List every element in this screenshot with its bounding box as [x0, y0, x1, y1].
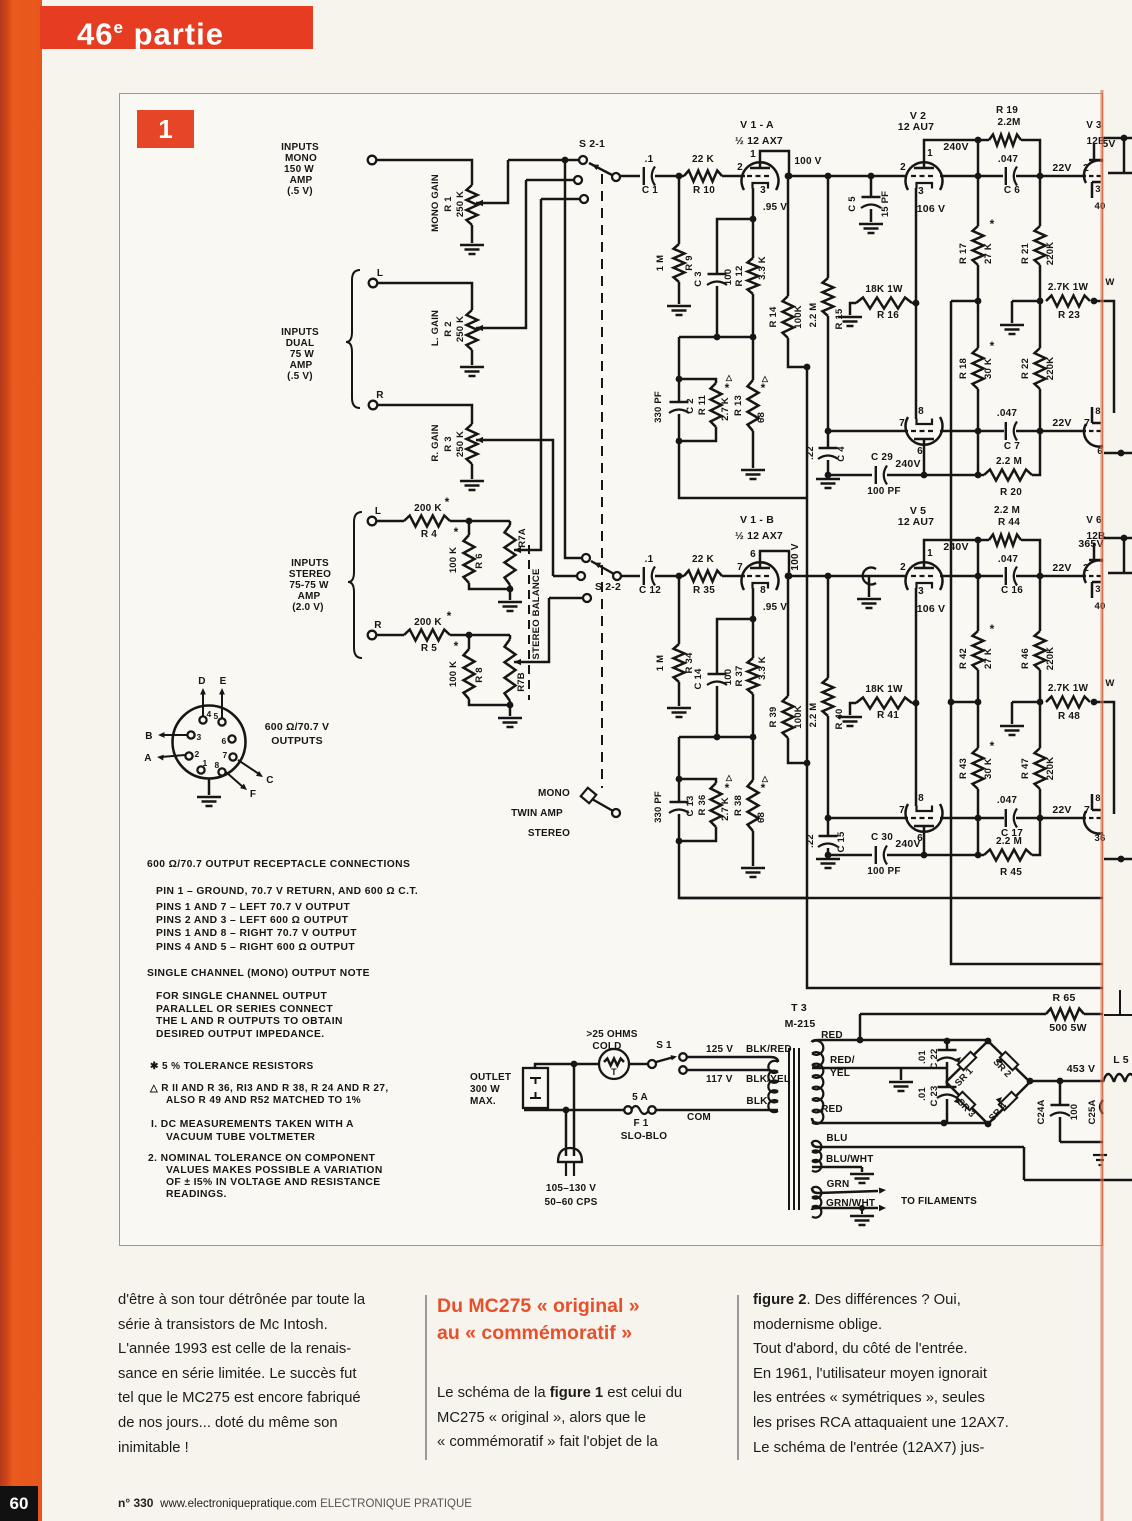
resistor R 44 2.2M: [989, 535, 1021, 546]
wire node to C 2 column: [678, 337, 681, 379]
node R17/R18: [975, 699, 982, 706]
wire V 1 - B plate jog: [760, 551, 789, 576]
svg-text:*: *: [447, 609, 452, 623]
node plate rail V 5: [975, 537, 982, 544]
wire B+ rail x951: [951, 301, 1103, 964]
transformer T3 HV secondary: [812, 1041, 823, 1124]
svg-text:3: 3: [918, 586, 924, 597]
svg-text:OF ± I5% IN VOLTAGE AND RE: OF ± I5% IN VOLTAGE AND RESISTANCE: [166, 1177, 381, 1188]
switch S2-2 arm: [591, 561, 614, 574]
svg-text:BLU: BLU: [826, 1133, 847, 1144]
resistor R 42 27K: [973, 631, 984, 670]
rectifier bridge SR2: [988, 1041, 1030, 1082]
svg-text:.95 V: .95 V: [763, 202, 787, 213]
wire GRN/WHT tap arrow: [812, 1208, 878, 1210]
wire R23 to next page: [1094, 301, 1114, 413]
resistor R8 100K: [464, 649, 475, 699]
switch S2-2 throw2: [577, 572, 585, 580]
resistor R 10 22K: [684, 171, 722, 182]
wire R8 stem: [468, 635, 471, 649]
node R 37 bottom: [750, 734, 757, 741]
capacitor C 14 100pF: [708, 673, 727, 675]
svg-text:C: C: [266, 775, 273, 786]
svg-text:S 2-2: S 2-2: [595, 581, 621, 593]
switch S1 contact 125V: [679, 1053, 687, 1061]
svg-text:117 V: 117 V: [706, 1074, 733, 1085]
pot R1 wiper: [476, 200, 483, 206]
wire RED/YEL centre tap: [812, 1068, 901, 1080]
node C7 right: [1037, 428, 1044, 435]
svg-text:DESIRED OUTPUT IMPEDANCE.: DESIRED OUTPUT IMPEDANCE.: [156, 1029, 324, 1040]
svg-text:*: *: [454, 525, 459, 539]
svg-text:7: 7: [737, 562, 743, 573]
ground below C 15: [816, 859, 840, 868]
capacitor C 7 .047: [1005, 422, 1007, 440]
wire C 16 to V3 grid: [1016, 575, 1086, 578]
svg-text:PINS 2 AND 3 – LEFT 600 Ω O: PINS 2 AND 3 – LEFT 600 Ω OUTPUT: [156, 915, 349, 926]
svg-text:W: W: [1105, 678, 1114, 689]
svg-text:.047: .047: [997, 408, 1018, 419]
capacitor C 29 100PF: [875, 466, 877, 484]
svg-text:.95 V: .95 V: [763, 602, 787, 613]
svg-text:100 PF: 100 PF: [867, 866, 900, 877]
svg-text:125 V: 125 V: [706, 1044, 733, 1055]
wire pin7 row: [828, 817, 908, 820]
svg-text:THE L AND R OUTPUTS TO OBT: THE L AND R OUTPUTS TO OBTAIN: [156, 1016, 343, 1027]
node C22 top: [944, 1038, 951, 1045]
svg-text:.01: .01: [917, 1087, 928, 1101]
terminal L stereo input: [368, 517, 377, 526]
wire R stereo to R5: [376, 634, 404, 637]
wire thermistor to S1: [629, 1063, 648, 1066]
wire pin6 row left: [828, 474, 872, 477]
svg-text:8: 8: [918, 406, 924, 417]
svg-text:*: *: [990, 622, 995, 636]
capacitor C 13 330PF: [678, 779, 681, 803]
svg-text:C 6: C 6: [1004, 185, 1020, 196]
svg-text:240V: 240V: [895, 458, 920, 470]
svg-text:C 5: C 5: [847, 196, 858, 212]
wire cathode to C 3: [717, 219, 753, 275]
svg-text:INPUTS: INPUTS: [281, 142, 319, 153]
svg-text:R 5: R 5: [421, 643, 437, 654]
svg-text:8: 8: [918, 793, 924, 804]
svg-text:FOR SINGLE CHANNEL OUTPUT: FOR SINGLE CHANNEL OUTPUT: [156, 991, 327, 1002]
svg-text:STEREO: STEREO: [289, 569, 331, 580]
resistor R 47 220K: [1039, 702, 1042, 748]
svg-text:330 PF: 330 PF: [653, 791, 664, 823]
svg-text:2.7 K: 2.7 K: [720, 797, 731, 821]
wire R2 to ground: [471, 350, 474, 365]
transformer T3 BLU winding: [812, 1141, 821, 1172]
capacitor C 15 .22: [825, 815, 832, 822]
svg-text:2.2 M: 2.2 M: [808, 703, 819, 728]
svg-text:68: 68: [756, 812, 767, 823]
svg-text:R 16: R 16: [877, 310, 899, 321]
node C 13 bottom: [676, 838, 683, 845]
node R 41 junction: [913, 700, 920, 707]
wire C 17 to V3 pin7: [1016, 817, 1086, 820]
svg-text:75 W: 75 W: [290, 349, 315, 360]
wire right edge stub top: [1103, 137, 1132, 140]
svg-text:330 PF: 330 PF: [653, 391, 664, 423]
svg-text:R 34: R 34: [684, 652, 695, 673]
wire R6 stem: [468, 521, 471, 535]
svg-text:L: L: [377, 268, 383, 279]
svg-text:7: 7: [899, 805, 905, 816]
svg-text:22V: 22V: [1052, 417, 1071, 429]
svg-text:R 22: R 22: [1020, 358, 1031, 379]
ground below receptacle: [197, 797, 221, 806]
wire bus mono to S2-2: [565, 160, 581, 558]
svg-text:22 K: 22 K: [692, 554, 715, 565]
triode V 2 phase inverter upper: [906, 162, 943, 190]
node B+ rail channel B: [948, 699, 955, 706]
svg-text:106 V: 106 V: [917, 603, 945, 615]
svg-text:E: E: [220, 676, 227, 687]
svg-text:R 3: R 3: [443, 436, 454, 451]
wire fuse to primary bottom: [656, 1109, 778, 1112]
triode V 1 - B first stage: [741, 562, 778, 590]
wire C 6 to V3 grid: [1016, 175, 1086, 178]
node plate junction: [786, 573, 793, 580]
node grid rail: [975, 173, 982, 180]
node C7 left: [975, 428, 982, 435]
wire R 35 to tube grid: [722, 575, 745, 578]
ground below R 9: [667, 306, 691, 315]
svg-text:7: 7: [223, 750, 228, 760]
connector 600ohm/70.7V output receptacle: [173, 706, 246, 779]
wire feedback rail x807: [807, 367, 1103, 988]
svg-text:(.5 V): (.5 V): [287, 371, 313, 382]
wire V 5 grid out: [940, 575, 1003, 578]
svg-text:22V: 22V: [1052, 804, 1071, 816]
resistor R 15 2.2M: [825, 173, 832, 180]
ground below R7A: [498, 602, 522, 611]
wire cathode to C 14: [717, 619, 753, 675]
capacitor C22 .01: [946, 1041, 949, 1051]
terminal R stereo input: [368, 631, 377, 640]
resistor R 11 2.7K: [711, 383, 722, 427]
terminal R input: [369, 401, 378, 410]
svg-text:R 38: R 38: [733, 795, 744, 816]
pin D arrow: [202, 692, 204, 716]
svg-text:R 35: R 35: [693, 585, 715, 596]
svg-text:M-215: M-215: [785, 1018, 816, 1030]
potentiometer R7A: [509, 521, 512, 525]
wire R 10 to tube grid: [722, 175, 745, 178]
potentiometer R7B: [509, 635, 512, 639]
svg-text:8: 8: [760, 585, 766, 596]
pin A arrow: [161, 755, 185, 757]
node grid junction R 35: [676, 573, 683, 580]
svg-text:220K: 220K: [1045, 357, 1056, 381]
node R21 top: [1037, 573, 1044, 580]
wire R23 ground branch: [1012, 301, 1040, 323]
svg-text:250 K: 250 K: [455, 316, 466, 342]
svg-text:R 6: R 6: [474, 553, 485, 568]
resistor R 18 30K: [977, 301, 980, 348]
switch S1 pole: [648, 1060, 656, 1068]
svg-text:*: *: [761, 381, 766, 395]
svg-text:L 5: L 5: [1113, 1054, 1129, 1066]
svg-text:2: 2: [737, 162, 743, 173]
ground below R1: [460, 245, 484, 254]
svg-text:100K: 100K: [793, 705, 804, 729]
wire receptacle ground: [208, 779, 211, 796]
ground below R2: [460, 367, 484, 376]
wire R6/R7A bottom node: [469, 583, 510, 600]
node grid junction R 10: [676, 173, 683, 180]
capacitor C 6 .047: [1005, 167, 1007, 185]
switch S2-1 throw2: [574, 176, 582, 184]
svg-text:R 42: R 42: [958, 648, 969, 669]
svg-text:C 17: C 17: [1001, 828, 1023, 839]
svg-text:100K: 100K: [793, 305, 804, 329]
svg-text:1 M: 1 M: [655, 655, 666, 671]
svg-text:S 2-1: S 2-1: [579, 138, 605, 150]
pin F arrow: [226, 772, 243, 787]
svg-text:.01: .01: [917, 1050, 928, 1064]
svg-text:*: *: [990, 217, 995, 231]
resistor R 22 220K: [1039, 301, 1042, 348]
ground below R3: [460, 481, 484, 490]
svg-text:2.2 M: 2.2 M: [994, 505, 1020, 516]
resistor R 12 3.3K: [752, 219, 755, 258]
svg-text:100 V: 100 V: [794, 156, 821, 167]
pin B arrow: [162, 734, 187, 736]
ground R23 branch: [1000, 726, 1024, 735]
svg-text:3.3 K: 3.3 K: [757, 256, 768, 280]
svg-text:R 11: R 11: [697, 394, 708, 415]
svg-text:6: 6: [917, 446, 923, 457]
node R21/R22/R23: [1037, 699, 1044, 706]
svg-text:*: *: [454, 639, 459, 653]
svg-text:R 14: R 14: [768, 306, 779, 327]
rectifier bridge SR3: [946, 1082, 988, 1124]
svg-text:R 48: R 48: [1058, 711, 1080, 722]
node C23 bottom tap: [941, 1120, 948, 1127]
potentiometer R3 250K: [467, 424, 478, 464]
svg-text:R 15: R 15: [834, 308, 845, 329]
wire C24A bottom: [1060, 1141, 1103, 1144]
wire RED top tap: [812, 1014, 860, 1042]
node C7 left: [975, 815, 982, 822]
resistor R 37 3.3K: [752, 619, 755, 658]
wire cathode stem: [752, 588, 755, 619]
svg-text:SLO-BLO: SLO-BLO: [621, 1131, 667, 1142]
svg-text:△: △: [761, 374, 769, 383]
capacitor C 30 100PF: [875, 846, 877, 864]
svg-text:27 K: 27 K: [983, 648, 994, 669]
switch S2-1 pole: [612, 173, 620, 181]
svg-text:AMP: AMP: [290, 360, 313, 371]
triode V 5 phase inverter upper: [906, 562, 943, 590]
triode V 6 upper partial: [1084, 560, 1103, 583]
connector pins 1-8: [199, 716, 206, 723]
wire pin6 row right: [887, 474, 984, 477]
node R17/R18: [975, 298, 982, 305]
svg-text:220K: 220K: [1045, 647, 1056, 671]
triode V 1 - A first stage: [741, 162, 778, 190]
wire node to B+ rail: [951, 300, 978, 303]
svg-text:.1: .1: [645, 154, 654, 165]
svg-text:OUTLET: OUTLET: [470, 1072, 511, 1083]
pot R3 wiper: [476, 437, 483, 443]
wire C 13 bottom to bus: [679, 841, 807, 898]
svg-text:R7A: R7A: [517, 528, 528, 548]
svg-text:ALSO R 49 AND R52 MATCHED: ALSO R 49 AND R52 MATCHED TO 1%: [166, 1095, 361, 1106]
svg-text:.047: .047: [997, 795, 1018, 806]
svg-text:100: 100: [723, 269, 734, 285]
svg-text:250 K: 250 K: [455, 431, 466, 457]
svg-text:COM: COM: [687, 1112, 711, 1123]
svg-text:I. DC MEASUREMENTS TAKEN: I. DC MEASUREMENTS TAKEN WITH A: [151, 1119, 354, 1130]
svg-text:PINS 4 AND 5 – RIGHT 600 Ω: PINS 4 AND 5 – RIGHT 600 Ω OUTPUT: [156, 942, 355, 953]
switch S1 contact 117V: [679, 1066, 687, 1074]
svg-text:22 K: 22 K: [692, 154, 715, 165]
resistor R 43 30K: [977, 702, 980, 748]
svg-text:DUAL: DUAL: [286, 338, 315, 349]
resistor R 14 100K: [785, 173, 792, 180]
svg-text:R 36: R 36: [697, 795, 708, 816]
wire C 7 to V3 pin7: [1016, 430, 1086, 433]
capacitor C 3 100pF: [708, 273, 727, 275]
resistor R 36 2.7K: [711, 783, 722, 827]
wire plug leads: [566, 1064, 574, 1156]
wire RED bottom tap: [812, 1118, 987, 1123]
capacitor C 17 .047: [1005, 809, 1007, 827]
node R18 bottom: [975, 472, 982, 479]
svg-text:R 1: R 1: [443, 196, 454, 212]
svg-text:AMP: AMP: [290, 175, 313, 186]
svg-text:VALUES MAKES POSSIBLE A VA: VALUES MAKES POSSIBLE A VARIATION: [166, 1165, 383, 1176]
wire bridge output 453V: [1030, 1080, 1103, 1083]
svg-text:1: 1: [750, 149, 756, 160]
svg-text:2. NOMINAL TOLERANCE ON CO: 2. NOMINAL TOLERANCE ON COMPONENT: [148, 1153, 376, 1164]
wire centre tap to C22/C23: [901, 1067, 947, 1070]
svg-text:R 43: R 43: [958, 758, 969, 779]
svg-text:VACUUM TUBE VOLTMETER: VACUUM TUBE VOLTMETER: [166, 1132, 315, 1143]
resistor R 39 100K: [785, 573, 792, 580]
node bridge bottom: [985, 1121, 992, 1128]
svg-text:YEL: YEL: [830, 1068, 850, 1079]
svg-text:3: 3: [197, 732, 202, 742]
ground R23 branch: [1000, 325, 1024, 334]
svg-text:R 46: R 46: [1020, 648, 1031, 669]
svg-text:5 A: 5 A: [632, 1092, 648, 1103]
svg-text:.1: .1: [645, 554, 654, 565]
ground GRN/WHT: [861, 1208, 863, 1214]
svg-text:R: R: [376, 390, 384, 401]
svg-text:.047: .047: [998, 154, 1019, 165]
svg-text:600 Ω/70.7 OUTPUT RECEPTACLE: 600 Ω/70.7 OUTPUT RECEPTACLE CONNECTIONS: [147, 859, 410, 870]
wire V 2 grid out: [940, 175, 1003, 178]
svg-text:PARALLEL OR SERIES CONNECT: PARALLEL OR SERIES CONNECT: [156, 1004, 333, 1015]
node C 13 top: [676, 776, 683, 783]
svg-text:100: 100: [723, 669, 734, 685]
svg-text:C 4: C 4: [836, 446, 847, 462]
svg-text:3: 3: [918, 186, 924, 197]
svg-text:>25 OHMS: >25 OHMS: [586, 1029, 637, 1040]
svg-text:△: △: [761, 774, 769, 783]
svg-text:240V: 240V: [943, 141, 968, 153]
svg-text:C 15: C 15: [836, 831, 847, 852]
transformer T3 core: [789, 1048, 799, 1210]
svg-text:2.7K 1W: 2.7K 1W: [1048, 683, 1089, 694]
svg-text:105–130 V: 105–130 V: [546, 1183, 596, 1194]
svg-text:1: 1: [927, 148, 933, 159]
svg-text:15 PF: 15 PF: [880, 191, 891, 217]
svg-text:R 8: R 8: [474, 667, 485, 682]
capacitor C 4 .22: [825, 428, 832, 435]
ground below R7B: [498, 718, 522, 727]
wire pin7 row: [828, 430, 908, 433]
svg-text:300 W: 300 W: [470, 1084, 500, 1095]
svg-text:100 K: 100 K: [448, 661, 459, 687]
node RED/R65 riser: [857, 1037, 864, 1044]
ground below C5: [859, 224, 883, 233]
wire to V 2 grid: [871, 175, 905, 178]
wire V 2 plate to R 19: [924, 140, 989, 168]
svg-text:L: L: [375, 506, 381, 517]
switch S2-1 throw1: [579, 156, 587, 164]
svg-text:30 K: 30 K: [983, 358, 994, 379]
svg-text:100: 100: [1069, 1104, 1080, 1120]
svg-text:R 37: R 37: [734, 666, 745, 687]
diode SR1 body: [958, 1052, 976, 1070]
svg-text:1 M: 1 M: [655, 255, 666, 271]
ground BLU/WHT: [850, 1174, 874, 1183]
svg-text:C 2: C 2: [685, 398, 696, 413]
resistor R 46 220K: [1039, 576, 1042, 631]
wire V 5 plate lower: [923, 826, 926, 855]
svg-text:22V: 22V: [1052, 162, 1071, 174]
svg-text:R 45: R 45: [1000, 867, 1022, 878]
brace dual inputs: [346, 270, 360, 408]
ground centre tap: [889, 1082, 913, 1091]
resistor R 21 220K: [1039, 176, 1042, 226]
svg-text:220K: 220K: [1045, 757, 1056, 781]
svg-text:R 44: R 44: [998, 517, 1020, 528]
svg-text:*: *: [445, 495, 450, 509]
node pin6: [921, 852, 928, 859]
svg-text:12 AU7: 12 AU7: [898, 516, 934, 528]
svg-text:2: 2: [900, 162, 906, 173]
svg-text:(2.0 V): (2.0 V): [292, 602, 323, 613]
svg-text:R 13: R 13: [733, 395, 744, 416]
triode V 2 phase inverter lower: [906, 417, 943, 445]
resistor R 23 2.7K: [1046, 296, 1090, 307]
ground below C 4: [816, 479, 840, 488]
svg-text:RED: RED: [821, 1104, 843, 1115]
triode V 5 phase inverter lower: [906, 804, 943, 832]
svg-text:MAX.: MAX.: [470, 1096, 496, 1107]
node junction bus A: [562, 157, 569, 164]
ac plug: [558, 1148, 582, 1162]
wire R2 wiper to S2-1 contact: [526, 179, 573, 182]
thermistor T: [599, 1049, 629, 1079]
wire C 12 to R 35: [655, 575, 684, 578]
svg-text:200 K: 200 K: [414, 617, 442, 628]
svg-text:✱ 5 % TOLERANCE RESISTORS: ✱ 5 % TOLERANCE RESISTORS: [150, 1061, 314, 1072]
wire S1 to primary top: [687, 1057, 778, 1062]
wire mono input to R1 top: [376, 160, 472, 185]
wire C4 to pin7 tube: [940, 817, 1004, 820]
node plate junction: [786, 173, 793, 180]
svg-text:R 23: R 23: [1058, 310, 1080, 321]
svg-text:106 V: 106 V: [917, 203, 945, 215]
